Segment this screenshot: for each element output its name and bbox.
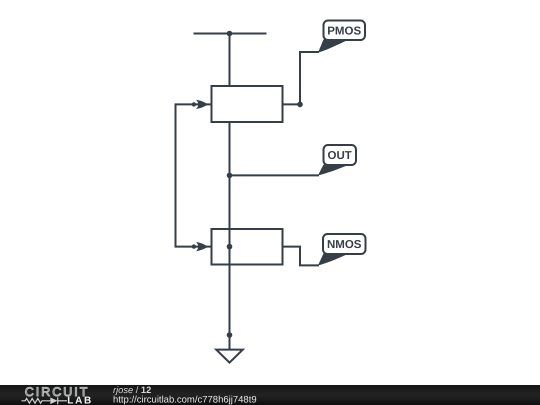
node junction inside NMOS box (227, 244, 233, 250)
wire PMOS right to flag elbow (283, 52, 320, 104)
svg-text:OUT: OUT (328, 150, 352, 162)
flag tail NMOS (318, 254, 349, 266)
flag OUT (324, 145, 357, 165)
wire OUT horizontal (230, 174, 320, 176)
wire gate net connecting both box inputs (176, 104, 212, 246)
svg-text:LAB: LAB (67, 395, 93, 405)
wire top rail (194, 33, 267, 35)
flag PMOS (324, 21, 366, 41)
node dot at NMOS gate arrow (192, 244, 196, 248)
logo diode triangle (50, 398, 57, 405)
svg-text:NMOS: NMOS (327, 239, 362, 251)
node OUT junction (227, 173, 233, 179)
wire rail to PMOS box top (229, 34, 231, 87)
wire PMOS drain down through NMOS box to ground (229, 122, 231, 350)
logo schematic squiggle: wire, resistor, diode (22, 397, 68, 404)
arrowhead into NMOS gate (196, 242, 208, 251)
footer bar (0, 385, 540, 405)
node junction on top rail (227, 31, 233, 37)
arrowhead into PMOS gate (196, 100, 208, 109)
PMOS box M1 (212, 86, 283, 122)
svg-text:PMOS: PMOS (327, 25, 361, 37)
wire NMOS right to flag elbow (283, 247, 320, 266)
node dot at PMOS gate arrow (192, 102, 196, 106)
flag tail OUT (318, 165, 349, 176)
NMOS box M2 (212, 229, 283, 265)
flag NMOS (323, 234, 366, 254)
node junction PMOS drain elbow (297, 102, 303, 108)
node junction above ground (227, 332, 233, 338)
flag tail PMOS (318, 40, 349, 53)
ground symbol (216, 350, 243, 363)
svg-text:http://circuitlab.com/c778h6jj: http://circuitlab.com/c778h6jj748t9 (113, 395, 257, 405)
